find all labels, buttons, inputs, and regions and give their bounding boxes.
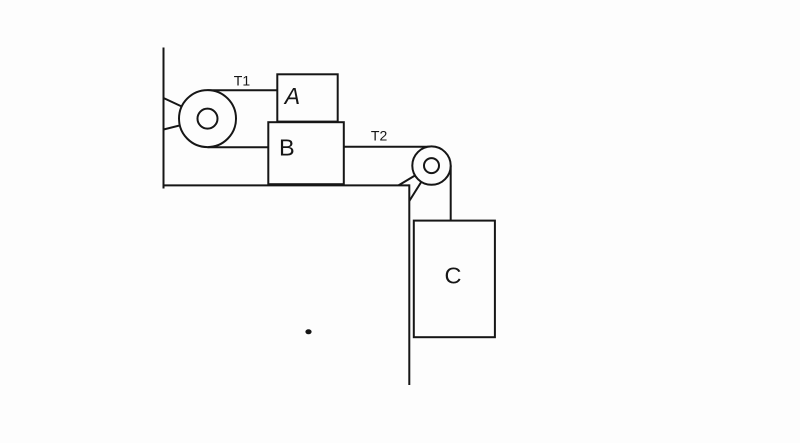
svg-text:T1: T1 xyxy=(234,72,251,88)
svg-text:A: A xyxy=(283,83,300,109)
svg-text:B: B xyxy=(279,135,295,161)
svg-text:C: C xyxy=(445,262,462,288)
svg-text:T2: T2 xyxy=(371,128,388,144)
